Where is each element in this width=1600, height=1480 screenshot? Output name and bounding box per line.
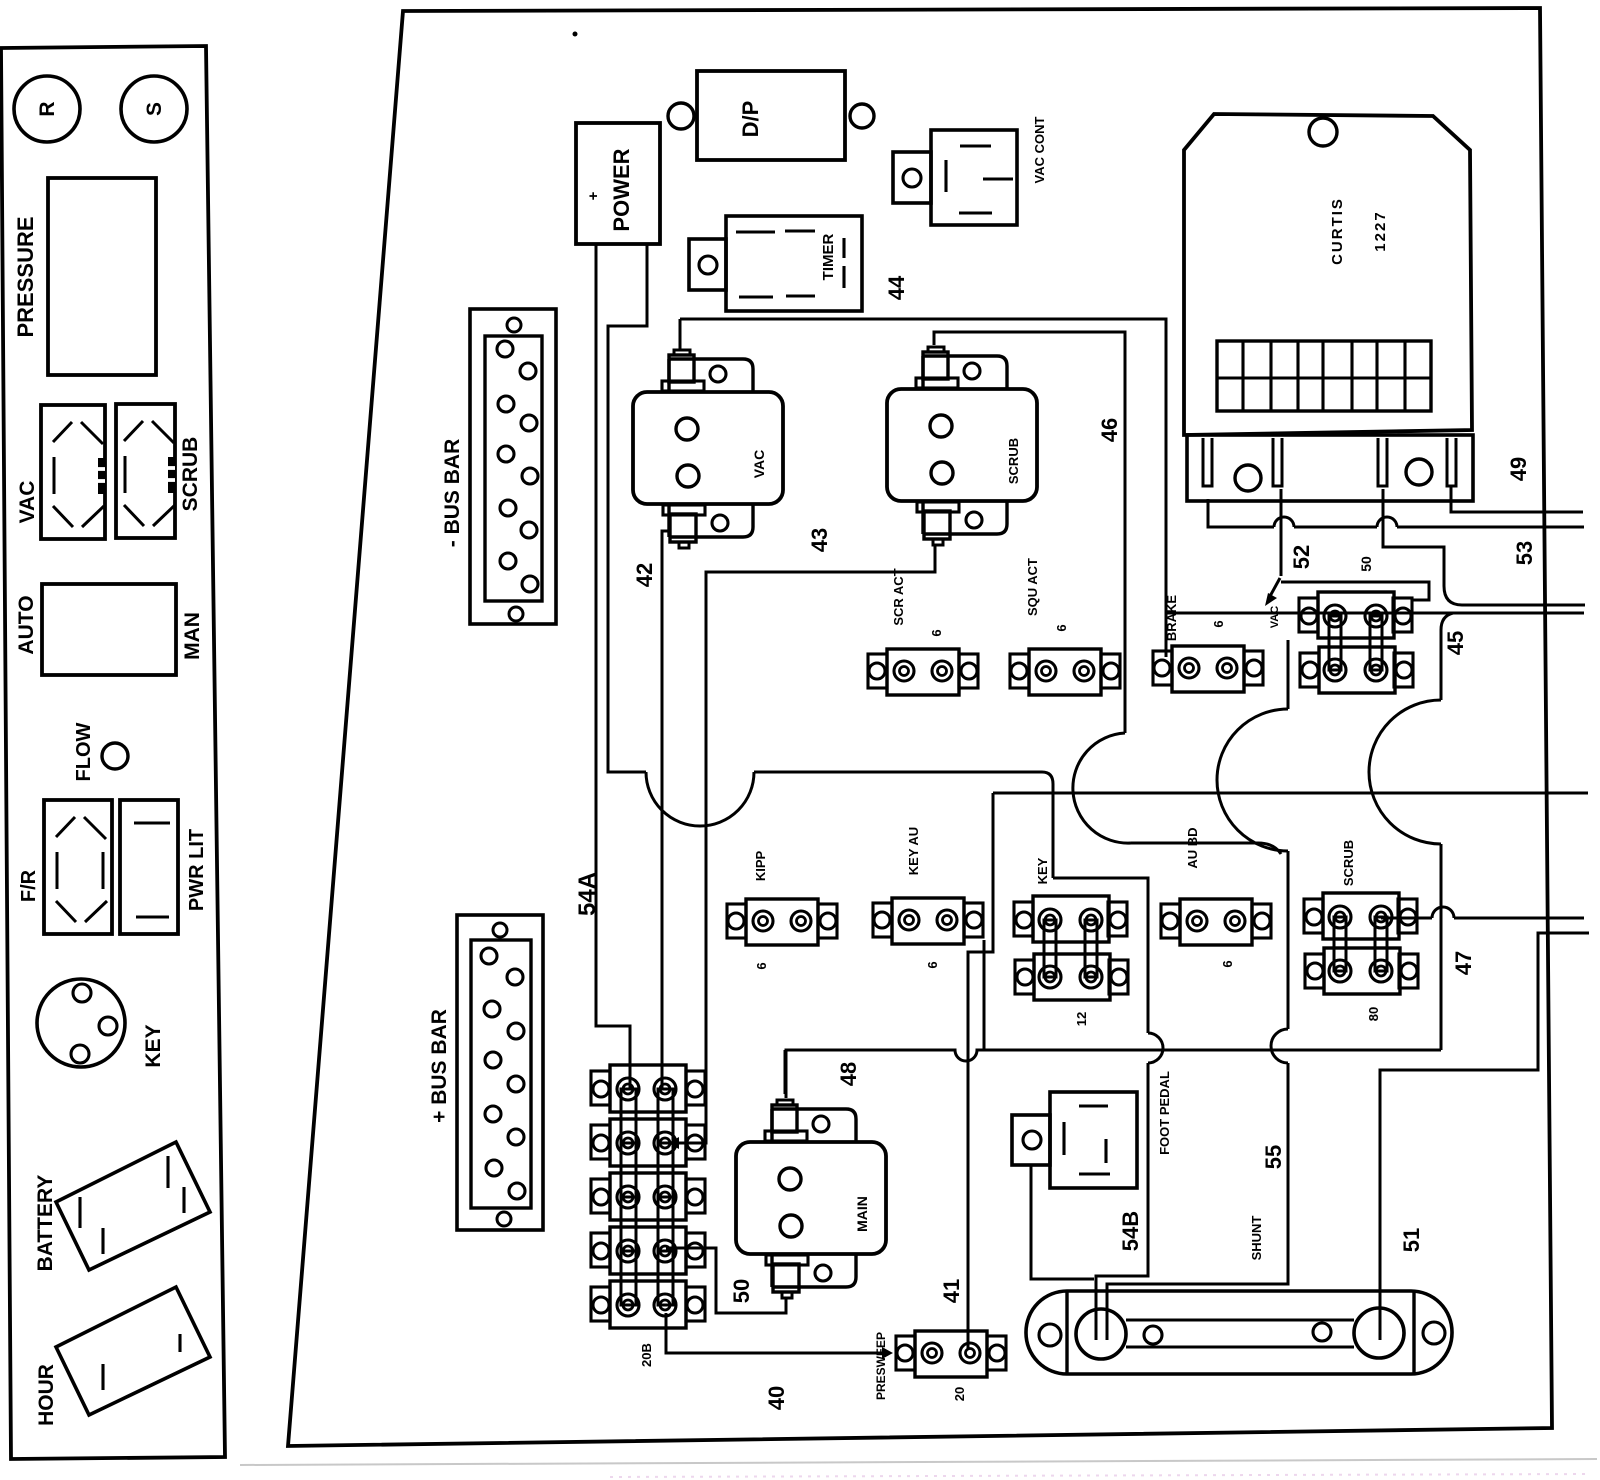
svg-text:6: 6 bbox=[929, 629, 944, 636]
svg-text:HOUR: HOUR bbox=[35, 1364, 58, 1426]
svg-text:KIPP: KIPP bbox=[753, 851, 768, 882]
VAC CONT relay bbox=[893, 152, 931, 203]
CURTIS 1227 controller bbox=[1184, 114, 1472, 435]
fuse BRAKE bbox=[1153, 651, 1172, 685]
svg-text:42: 42 bbox=[632, 563, 657, 587]
wire 42 bbox=[662, 531, 671, 1089]
wire 40 bbox=[666, 1313, 888, 1353]
wire foot pedal to shunt bbox=[1031, 1165, 1094, 1279]
fuse SQU ACT bbox=[1010, 654, 1029, 688]
svg-text:- BUS BAR: - BUS BAR bbox=[441, 439, 464, 548]
svg-text:6: 6 bbox=[1220, 960, 1235, 967]
svg-text:S: S bbox=[143, 102, 166, 116]
terminal strip stack 20B bbox=[591, 1071, 610, 1105]
svg-text:44: 44 bbox=[884, 275, 909, 300]
svg-text:12: 12 bbox=[1074, 1012, 1089, 1026]
wire 45 to SCRUB block vertical bbox=[1441, 613, 1453, 700]
wire 49 bbox=[1451, 487, 1583, 512]
svg-text:41: 41 bbox=[939, 1279, 964, 1303]
svg-text:PRESWEEP: PRESWEEP bbox=[874, 1332, 888, 1400]
main panel outline bbox=[288, 8, 1552, 1446]
terminal block VAC (45) bbox=[1299, 598, 1318, 632]
positive bus bar bbox=[457, 915, 543, 1230]
fuse KEY AU bbox=[873, 903, 892, 937]
svg-text:FLOW: FLOW bbox=[73, 722, 95, 781]
wire 47/48 long bus bbox=[786, 1050, 1441, 1098]
svg-text:6: 6 bbox=[754, 962, 769, 969]
svg-text:MAIN: MAIN bbox=[854, 1196, 870, 1232]
fuse SCR ACT bbox=[868, 654, 887, 688]
svg-text:54B: 54B bbox=[1118, 1211, 1143, 1251]
wire 43 bbox=[673, 545, 935, 1143]
svg-text:50: 50 bbox=[729, 1279, 754, 1303]
svg-text:SHUNT: SHUNT bbox=[1249, 1216, 1264, 1261]
PWR LIT box bbox=[120, 800, 178, 934]
svg-text:45: 45 bbox=[1443, 631, 1468, 655]
svg-text:KEY AU: KEY AU bbox=[906, 827, 921, 875]
fuse AU BD bbox=[1161, 904, 1180, 938]
fuse PRESWEEP bbox=[896, 1336, 915, 1370]
svg-text:KEY: KEY bbox=[1035, 857, 1050, 884]
VAC rocker switch bbox=[41, 405, 105, 539]
hop on 772 wire bbox=[646, 772, 754, 826]
wire 41 drop bbox=[968, 793, 993, 1350]
wire 51 bbox=[1380, 933, 1589, 1340]
svg-text:20B: 20B bbox=[639, 1343, 654, 1367]
fuse KIPP bbox=[727, 904, 746, 938]
indicator R bbox=[14, 76, 80, 142]
circuit breaker MAIN (50) bbox=[772, 1109, 856, 1142]
wire KEY AU drop bbox=[983, 940, 986, 1050]
svg-text:R: R bbox=[36, 101, 59, 116]
circuit breaker SCRUB (43) bbox=[923, 356, 1007, 389]
wire bus 793 bbox=[993, 792, 1588, 795]
svg-text:POWER: POWER bbox=[609, 148, 634, 231]
svg-text:VAC: VAC bbox=[1269, 606, 1281, 628]
svg-text:53: 53 bbox=[1512, 541, 1537, 565]
wire 52 from CURTIS pin 2 bbox=[1280, 489, 1283, 576]
svg-text:51: 51 bbox=[1399, 1228, 1424, 1252]
indicator S bbox=[121, 76, 187, 142]
left control panel outline bbox=[1, 46, 225, 1459]
svg-text:KEY: KEY bbox=[142, 1024, 165, 1067]
SHUNT bar bbox=[1026, 1291, 1452, 1374]
svg-text:PWR LIT: PWR LIT bbox=[186, 829, 208, 911]
D/P module bbox=[697, 71, 845, 160]
wire 50 strip to MAIN bbox=[666, 1248, 786, 1313]
svg-text:FOOT PEDAL: FOOT PEDAL bbox=[1157, 1071, 1172, 1155]
svg-text:SCR ACT: SCR ACT bbox=[891, 568, 906, 625]
CURTIS connector grid bbox=[1217, 341, 1431, 411]
PRESSURE gauge box bbox=[48, 178, 156, 375]
svg-text:SCRUB: SCRUB bbox=[1341, 840, 1356, 886]
svg-text:48: 48 bbox=[836, 1062, 861, 1086]
SCRUB rocker switch bbox=[116, 404, 175, 538]
negative bus bar bbox=[470, 309, 556, 624]
svg-text:43: 43 bbox=[807, 528, 832, 552]
wire 54A right (POWER to bus) bbox=[608, 244, 647, 772]
wire MAIN top bbox=[784, 1050, 787, 1094]
wire 46 bbox=[934, 332, 1125, 733]
svg-text:50: 50 bbox=[1358, 556, 1374, 572]
HOUR meter bbox=[56, 1287, 210, 1415]
circuit breaker VAC (42) bbox=[669, 359, 753, 392]
svg-text:AUTO: AUTO bbox=[15, 595, 38, 654]
FOOT PEDAL relay bbox=[1012, 1115, 1050, 1165]
svg-text:VAC: VAC bbox=[16, 481, 39, 524]
svg-text:6: 6 bbox=[1211, 620, 1226, 627]
TIMER relay bbox=[689, 239, 726, 290]
svg-text:SQU ACT: SQU ACT bbox=[1025, 558, 1040, 616]
svg-text:VAC: VAC bbox=[751, 450, 767, 479]
POWER supply box bbox=[576, 123, 660, 244]
wire 44 bbox=[680, 319, 1166, 657]
wire 613 bus bbox=[1166, 612, 1584, 615]
svg-text:SCRUB: SCRUB bbox=[179, 437, 202, 512]
svg-text:6: 6 bbox=[1054, 624, 1069, 631]
svg-text:+ BUS BAR: + BUS BAR bbox=[428, 1009, 451, 1123]
svg-text:1227: 1227 bbox=[1372, 210, 1389, 251]
svg-text:TIMER: TIMER bbox=[820, 234, 837, 281]
svg-text:AU BD: AU BD bbox=[1185, 827, 1200, 868]
wire 52 branch to block right bbox=[1281, 582, 1429, 600]
wire VAC junction down to shunt bbox=[1287, 640, 1290, 709]
svg-text:80: 80 bbox=[1366, 1007, 1381, 1021]
svg-text:BATTERY: BATTERY bbox=[34, 1175, 57, 1272]
D/P left grommet bbox=[668, 103, 694, 129]
svg-text:VAC CONT: VAC CONT bbox=[1032, 116, 1047, 183]
svg-text:PRESSURE: PRESSURE bbox=[13, 216, 38, 337]
svg-text:CURTIS: CURTIS bbox=[1329, 197, 1346, 265]
KEY connector bbox=[37, 979, 125, 1067]
svg-text:+: + bbox=[585, 191, 602, 200]
svg-text:46: 46 bbox=[1097, 418, 1122, 442]
svg-text:MAN: MAN bbox=[181, 612, 204, 660]
svg-text:40: 40 bbox=[764, 1386, 789, 1410]
wire 50 bbox=[1383, 489, 1585, 605]
svg-text:SCRUB: SCRUB bbox=[1006, 438, 1021, 484]
svg-text:6: 6 bbox=[925, 961, 940, 968]
AUTO/MAN switch box bbox=[42, 584, 176, 675]
F/R rocker switch bbox=[44, 800, 112, 934]
svg-text:D/P: D/P bbox=[738, 101, 763, 138]
terminal block KEY (12) bbox=[1014, 902, 1033, 936]
svg-text:52: 52 bbox=[1289, 545, 1314, 569]
D/P right grommet bbox=[850, 104, 874, 128]
wire VAC top to 44 bbox=[679, 319, 682, 350]
CURTIS pin footer bbox=[1187, 435, 1473, 501]
terminal block SCRUB (80/47) bbox=[1304, 899, 1323, 933]
svg-text:47: 47 bbox=[1451, 951, 1476, 975]
arrow 52 to VAC block bbox=[1269, 578, 1280, 598]
BATTERY meter bbox=[56, 1142, 210, 1270]
wire 53 bbox=[1208, 499, 1274, 527]
svg-text:20: 20 bbox=[952, 1387, 967, 1401]
svg-text:49: 49 bbox=[1506, 457, 1531, 481]
page edge faint line bbox=[240, 1459, 1597, 1465]
wire 54B from bus to shunt bbox=[1053, 878, 1148, 1033]
wire 54A left (POWER to strip) bbox=[596, 244, 630, 1089]
stray dot bbox=[573, 32, 578, 37]
svg-text:55: 55 bbox=[1261, 1145, 1286, 1169]
svg-text:54A: 54A bbox=[574, 872, 601, 916]
svg-text:F/R: F/R bbox=[18, 869, 40, 902]
wire SCRUB 47 exit bbox=[1381, 917, 1432, 920]
